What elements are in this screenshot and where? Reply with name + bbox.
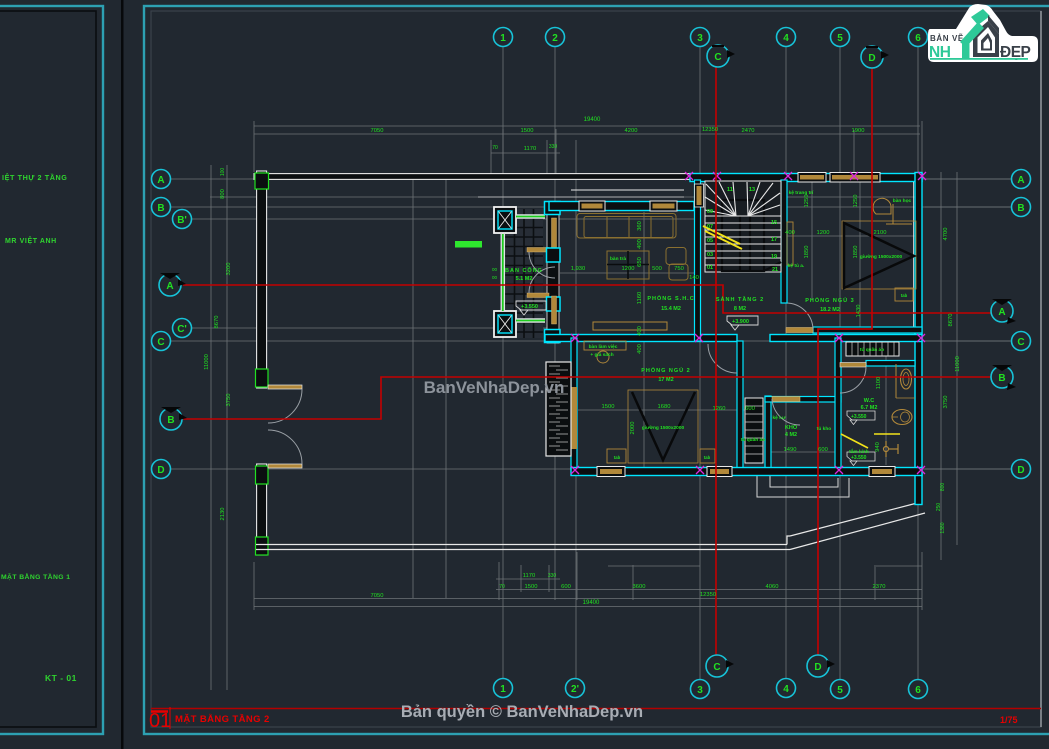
vertical grid line 4 <box>785 46 787 680</box>
svg-text:1/75: 1/75 <box>1000 715 1018 725</box>
left dim vertical line b <box>226 165 228 690</box>
svg-text:1500: 1500 <box>525 584 538 590</box>
svg-text:3750: 3750 <box>943 396 949 409</box>
svg-text:MẶT BẰNG TẦNG 2: MẶT BẰNG TẦNG 2 <box>175 714 270 725</box>
bedroom3 dim verticals <box>811 182 813 300</box>
right dim horizontal stubs <box>925 178 1010 180</box>
svg-text:800: 800 <box>940 483 946 492</box>
svg-text:1850: 1850 <box>804 246 810 259</box>
horizontal grid line A2 <box>210 196 922 198</box>
wc sink counter <box>895 364 897 398</box>
stair numbers <box>707 187 778 273</box>
stray vertical terrace line b <box>445 173 447 598</box>
svg-text:C: C <box>157 337 164 348</box>
stair treads <box>705 216 781 265</box>
svg-text:1200: 1200 <box>622 266 635 272</box>
svg-text:5.1 M2: 5.1 M2 <box>516 276 533 282</box>
bedroom3 desk line <box>892 204 894 224</box>
svg-text:650: 650 <box>637 257 643 267</box>
kho door arc <box>772 399 800 425</box>
svg-text:4700: 4700 <box>943 228 949 241</box>
wc closet top <box>846 342 899 356</box>
bedroom2 bed <box>628 390 698 463</box>
wc west wall <box>835 338 841 470</box>
TITLEBAR <box>149 703 1041 732</box>
svg-text:15: 15 <box>771 220 777 226</box>
svg-text:C: C <box>713 662 720 673</box>
left grid bubbles <box>152 170 192 479</box>
bottom dim line row4 <box>254 606 922 608</box>
bedroom2 nightstand right <box>700 449 715 463</box>
kho north wall <box>765 397 841 403</box>
svg-text:6: 6 <box>915 33 921 44</box>
svg-text:SẢNH TẦNG 2: SẢNH TẦNG 2 <box>716 296 764 303</box>
vertical grid line 1 <box>502 46 504 680</box>
svg-text:2': 2' <box>571 684 579 695</box>
corridor wardrobe <box>745 398 763 463</box>
stair left wall <box>695 180 701 341</box>
wc dim vertical <box>885 345 887 465</box>
svg-text:1900: 1900 <box>852 128 865 134</box>
bedroom2 west wall <box>571 338 577 470</box>
svg-text:D: D <box>1017 465 1024 476</box>
svg-text:MR VIỆT ANH: MR VIỆT ANH <box>5 236 57 245</box>
left door sill 2 <box>268 464 302 468</box>
logo green left wall bar <box>962 41 970 58</box>
logo house outer dark pentagon <box>973 21 999 57</box>
svg-text:12350: 12350 <box>700 592 716 598</box>
svg-text:03: 03 <box>707 252 713 258</box>
bedroom3 nightstand <box>895 288 913 301</box>
vertical grid line 2 <box>554 46 556 600</box>
svg-text:kệ tủ a.: kệ tủ a. <box>788 263 805 269</box>
svg-text:kệ t.ư: kệ t.ư <box>772 415 786 421</box>
stair up arrow yellow <box>703 226 740 244</box>
svg-text:tắm kính: tắm kính <box>849 448 869 455</box>
top grid bubbles <box>494 28 928 47</box>
west wall cyan box bottom <box>545 330 561 343</box>
vertical grid line 2' <box>575 140 577 680</box>
svg-text:1: 1 <box>500 33 506 44</box>
balcony door arcs <box>529 252 555 278</box>
svg-text:1260: 1260 <box>713 406 726 412</box>
bedroom2 bed V <box>632 392 695 460</box>
svg-text:400: 400 <box>637 344 643 354</box>
svg-text:12350: 12350 <box>702 127 718 133</box>
top window 2 <box>830 173 880 183</box>
svg-text:kệ trang trí: kệ trang trí <box>789 190 814 196</box>
bedroom3 desk chair <box>873 198 891 214</box>
svg-text:5: 5 <box>837 33 843 44</box>
section line B-B left part <box>183 377 1000 419</box>
svg-text:+3.900: +3.900 <box>732 319 749 325</box>
LOGO <box>928 4 1038 62</box>
svg-text:01: 01 <box>707 265 713 271</box>
right wall inner white line <box>913 182 915 330</box>
horizontal grid line B' <box>192 218 700 220</box>
svg-text:W.C: W.C <box>864 398 874 404</box>
svg-text:1250: 1250 <box>853 195 859 208</box>
left outer wall upper <box>257 171 267 388</box>
svg-text:4200: 4200 <box>625 128 638 134</box>
west wall door leaf 1 <box>552 218 557 248</box>
left door sill 1 <box>268 385 302 389</box>
svg-text:4 M2: 4 M2 <box>785 432 797 438</box>
bottom wall band <box>571 468 922 476</box>
svg-text:2470: 2470 <box>742 128 755 134</box>
vertical grid line 5 <box>839 46 841 680</box>
svg-text:bàn làm việc: bàn làm việc <box>589 344 618 350</box>
top window 1 <box>798 173 826 183</box>
svg-text:7050: 7050 <box>371 593 384 599</box>
bedroom3 shelf <box>787 222 793 265</box>
west wall cyan box top <box>545 202 561 215</box>
left sheet inner black border <box>0 11 96 727</box>
west wall cyan box mid <box>547 248 561 262</box>
balcony column 2 <box>494 311 516 337</box>
top parapet double white line <box>254 174 690 180</box>
svg-text:11000: 11000 <box>204 354 210 370</box>
bottom window 3 <box>869 467 895 477</box>
kho door sill <box>772 397 800 402</box>
logo house white core <box>984 38 991 49</box>
svg-text:A: A <box>998 307 1005 318</box>
svg-text:6.7 M2: 6.7 M2 <box>861 405 878 411</box>
open door leaf bottom <box>527 293 549 298</box>
top dim extension left end <box>253 121 255 172</box>
svg-text:C: C <box>714 52 721 63</box>
svg-text:1200: 1200 <box>817 230 830 236</box>
west wall door leaf 2 <box>552 296 557 324</box>
hall door arc to bedroom2 <box>708 344 737 373</box>
mid wall band <box>545 335 737 342</box>
wc door arc <box>840 367 866 393</box>
svg-text:3: 3 <box>697 33 703 44</box>
bedroom2 chair <box>597 351 609 363</box>
left door arc 2 <box>268 430 302 464</box>
svg-text:giường 1500x2000: giường 1500x2000 <box>860 254 903 260</box>
svg-text:A: A <box>166 281 173 292</box>
right section bubble A <box>991 299 1016 324</box>
sofa living <box>577 214 676 239</box>
upper terrace edge white lines <box>571 189 684 191</box>
svg-text:3750: 3750 <box>226 394 232 407</box>
horizontal grid line B <box>170 206 1012 208</box>
svg-text:19400: 19400 <box>583 600 600 606</box>
left wall column A <box>255 173 269 189</box>
right dim vertical line a <box>940 172 942 560</box>
bottom section bubble D <box>807 655 835 677</box>
BUBBLES <box>152 28 1031 699</box>
rotated dim texts <box>204 168 961 534</box>
svg-text:B: B <box>167 415 174 426</box>
bottom dim line row1 <box>496 578 560 580</box>
svg-text:3600: 3600 <box>633 584 646 590</box>
svg-text:18.2 M2: 18.2 M2 <box>820 307 840 313</box>
magenta X markers <box>571 172 926 474</box>
black divider line between sheets <box>121 0 124 749</box>
svg-text:140: 140 <box>689 275 699 281</box>
svg-text:3200: 3200 <box>226 263 232 276</box>
svg-text:8670: 8670 <box>214 316 220 329</box>
logo green underline <box>930 58 1028 60</box>
svg-text:BanVeNhaDep.vn: BanVeNhaDep.vn <box>424 378 565 397</box>
svg-text:4: 4 <box>783 684 789 695</box>
svg-text:1170: 1170 <box>524 146 536 152</box>
svg-text:940: 940 <box>875 442 881 452</box>
bedroom3 door arc <box>786 303 813 330</box>
section line C-C vertical <box>715 66 717 666</box>
top dim line row3 <box>491 152 560 154</box>
svg-text:1,930: 1,930 <box>571 266 586 272</box>
bedroom2 nightstand left <box>607 449 626 463</box>
svg-text:C': C' <box>177 324 187 335</box>
logo house inner dark ring <box>981 33 992 51</box>
svg-text:PHÒNG NGỦ 3: PHÒNG NGỦ 3 <box>805 296 855 304</box>
section line D-D vertical <box>818 67 872 666</box>
svg-text:400: 400 <box>637 239 643 249</box>
open door leaf top <box>527 248 549 253</box>
bottom terrace step <box>787 536 790 545</box>
svg-text:BẢN VẼ: BẢN VẼ <box>930 34 964 43</box>
balcony tiles <box>505 209 543 338</box>
svg-text:B: B <box>157 203 164 214</box>
bottom dim stub right <box>876 565 922 567</box>
svg-text:2130: 2130 <box>220 508 226 521</box>
bedroom2 dim row <box>578 409 762 411</box>
svg-text:tab: tab <box>901 293 908 298</box>
left sheet cyan border <box>0 6 103 734</box>
svg-text:giường 1500x2000: giường 1500x2000 <box>642 425 685 431</box>
svg-text:1380: 1380 <box>940 522 946 533</box>
svg-text:tab: tab <box>704 455 711 460</box>
bottom dim extensions <box>253 562 255 610</box>
bottom terrace diagonal double line <box>790 502 921 536</box>
svg-text:B: B <box>1017 203 1024 214</box>
top section bubble C <box>707 45 735 67</box>
top dim extension 1500 <box>502 129 504 175</box>
svg-text:B': B' <box>177 215 187 226</box>
stair right wall / bedroom3 west wall <box>781 180 787 303</box>
balcony rail bottom horizontal <box>516 318 545 323</box>
svg-text:Bản quyền © BanVeNhaDep.vn: Bản quyền © BanVeNhaDep.vn <box>401 703 643 721</box>
svg-text:8 M2: 8 M2 <box>734 306 746 312</box>
svg-text:360: 360 <box>637 221 643 231</box>
stair winder fan <box>705 182 780 216</box>
svg-text:330: 330 <box>549 144 558 150</box>
horizontal grid line D <box>170 468 1012 470</box>
kho dim row <box>770 451 835 453</box>
svg-text:600: 600 <box>818 447 828 453</box>
svg-text:400: 400 <box>785 230 795 236</box>
svg-text:3: 3 <box>697 685 703 696</box>
bedroom3 door sill <box>786 328 813 333</box>
svg-text:PHÒNG S.H.C: PHÒNG S.H.C <box>647 294 694 302</box>
wc toilet <box>892 410 912 425</box>
svg-text:2100: 2100 <box>874 230 887 236</box>
svg-text:D: D <box>157 465 164 476</box>
bottom dim line row3 <box>254 598 922 600</box>
stair left wall window <box>695 184 704 207</box>
svg-text:D: D <box>868 53 875 64</box>
vertical grid line 6 <box>917 46 919 680</box>
level flag +3.550 wc1 <box>847 411 875 425</box>
svg-text:400: 400 <box>637 326 643 336</box>
svg-text:00: 00 <box>492 267 498 272</box>
PLAN2 furniture & stair <box>516 172 926 474</box>
living window 2 <box>650 201 677 211</box>
living window 1 <box>579 201 605 211</box>
stray vertical terrace line a <box>412 173 414 598</box>
svg-text:70: 70 <box>499 584 505 590</box>
svg-text:D: D <box>814 662 821 673</box>
living room horizontal dim row <box>560 272 700 274</box>
svg-text:4060: 4060 <box>766 584 779 590</box>
svg-text:6: 6 <box>915 685 921 696</box>
top dim extension right parts <box>853 130 855 176</box>
bright green bar <box>455 241 482 248</box>
wc shower symbol <box>884 441 899 457</box>
svg-text:KT - 01: KT - 01 <box>45 673 77 683</box>
svg-text:tab: tab <box>614 455 621 460</box>
svg-text:07: 07 <box>707 224 713 230</box>
horizontal grid line A <box>170 178 1012 180</box>
svg-text:1490: 1490 <box>784 447 797 453</box>
big wardrobe bedroom2 <box>546 362 571 456</box>
svg-text:100: 100 <box>220 168 226 177</box>
svg-text:1160: 1160 <box>637 292 643 304</box>
svg-text:800: 800 <box>220 189 226 199</box>
left section bubble B <box>160 407 187 430</box>
logo green chimney <box>971 9 990 25</box>
svg-text:1850: 1850 <box>853 246 859 259</box>
svg-text:1: 1 <box>500 684 506 695</box>
wc yellow glass lines <box>841 434 868 448</box>
right section bubble B <box>991 365 1016 390</box>
logo dark roof right band <box>988 15 999 34</box>
vertical grid line 3 <box>699 46 701 680</box>
svg-text:00: 00 <box>492 275 498 280</box>
title tick <box>151 710 168 713</box>
svg-text:B: B <box>998 373 1005 384</box>
svg-text:1100: 1100 <box>876 377 882 389</box>
horizontal grid line C' <box>192 327 556 329</box>
bottom dim line row2 <box>496 589 922 591</box>
bedroom3 bed rect <box>842 221 916 289</box>
stair block outline <box>705 181 781 272</box>
armchairs living <box>666 248 686 265</box>
svg-text:8670: 8670 <box>948 314 954 327</box>
main sheet inner border right bright <box>1040 11 1042 727</box>
svg-text:11000: 11000 <box>955 356 961 372</box>
svg-text:330: 330 <box>548 573 557 579</box>
svg-text:600: 600 <box>561 584 571 590</box>
svg-text:500: 500 <box>652 266 662 272</box>
svg-text:19400: 19400 <box>584 117 601 123</box>
DIMTEXTS <box>371 117 887 606</box>
left wall column green 1 <box>256 369 269 387</box>
svg-text:09: 09 <box>707 209 713 215</box>
svg-text:5: 5 <box>837 685 843 696</box>
svg-text:11: 11 <box>727 187 733 193</box>
living room vertical dim chain <box>643 212 645 470</box>
wc north wall <box>866 361 915 367</box>
wc door leaf <box>840 363 866 368</box>
kho west wall <box>765 396 771 470</box>
svg-text:2370: 2370 <box>873 584 886 590</box>
living west wall band <box>547 202 559 343</box>
svg-text:19: 19 <box>771 254 777 260</box>
bedroom3 bed triangle <box>844 223 914 288</box>
top-right outer wall <box>690 174 922 182</box>
svg-text:7050: 7050 <box>371 128 384 134</box>
right grid bubbles <box>1012 170 1031 479</box>
bottom window 1 <box>597 467 625 477</box>
svg-text:A: A <box>157 175 164 186</box>
PLAN <box>254 171 925 555</box>
svg-text:15.4 M2: 15.4 M2 <box>661 306 681 312</box>
svg-text:1500: 1500 <box>521 128 534 134</box>
stair void black outline <box>722 200 764 271</box>
svg-text:bàn trà: bàn trà <box>610 256 626 262</box>
left wall column green 3 <box>256 537 269 555</box>
svg-text:tủ quần áo: tủ quần áo <box>741 437 765 443</box>
bottom dim stub left <box>608 565 700 567</box>
top dim line total <box>254 125 920 127</box>
svg-text:750: 750 <box>674 266 684 272</box>
svg-text:13: 13 <box>749 187 755 193</box>
balcony column 1 <box>494 207 516 233</box>
svg-text:70: 70 <box>492 145 498 151</box>
level flag +3.900 hall <box>727 316 758 330</box>
svg-text:PHÒNG NGỦ 2: PHÒNG NGỦ 2 <box>641 366 691 374</box>
bedroom2 west wall sliding door tan <box>572 387 578 449</box>
left wall column green 2 <box>256 466 269 484</box>
svg-text:1250: 1250 <box>804 195 810 208</box>
svg-text:05: 05 <box>707 238 713 244</box>
balcony right steps outline <box>757 476 849 497</box>
svg-text:01: 01 <box>149 710 171 732</box>
tv shelf living <box>593 322 667 330</box>
TEXTS <box>505 190 912 460</box>
svg-text:21: 21 <box>772 267 778 273</box>
bedroom3 dim row <box>786 235 915 237</box>
svg-text:1500: 1500 <box>602 404 615 410</box>
bedroom3 south wall <box>813 327 922 333</box>
GRIDS <box>170 46 1012 690</box>
svg-text:IỆT THỰ 2 TẦNG: IỆT THỰ 2 TẦNG <box>2 172 67 182</box>
svg-text:2000: 2000 <box>630 422 636 435</box>
bottom window 2 <box>707 467 732 477</box>
bedroom2 desk <box>584 341 626 350</box>
logo green roof band <box>960 22 984 47</box>
balcony rail top horizontal <box>516 214 545 219</box>
svg-text:+3.550: +3.550 <box>851 414 867 420</box>
top section bubble D <box>861 46 889 68</box>
logo house white ring <box>978 27 996 53</box>
wc sink <box>901 369 912 389</box>
bedroom2 east wall <box>737 341 743 470</box>
left dim vertical line a <box>210 165 212 690</box>
left outer wall lower <box>257 464 267 555</box>
svg-text:1430: 1430 <box>856 305 862 318</box>
REDLINES <box>183 66 1000 666</box>
left section bubble A <box>159 273 186 296</box>
svg-text:17: 17 <box>771 237 777 243</box>
logo white background blob <box>928 4 1038 62</box>
svg-text:2: 2 <box>552 33 558 44</box>
living top wall <box>549 202 694 211</box>
